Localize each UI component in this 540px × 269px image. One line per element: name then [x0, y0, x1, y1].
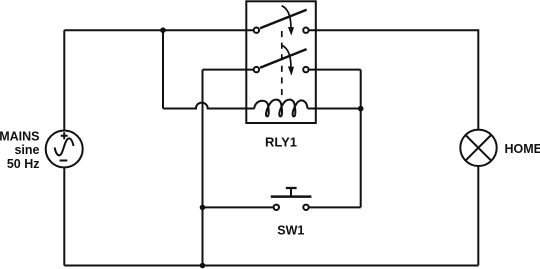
wire contact2 left rail: [203, 69, 254, 71]
pushbutton SW1 left terminal: [274, 205, 279, 210]
wire source bottom: [63, 169, 65, 266]
voltage source sine wave: [55, 138, 74, 155]
junction dot bottom rail: [200, 263, 206, 269]
svg-text:MAINS: MAINS: [0, 129, 40, 143]
relay contact 2 left terminal: [254, 67, 259, 72]
voltage source minus sign: [60, 160, 68, 162]
wire lamp bottom: [477, 166, 479, 265]
svg-text:50 Hz: 50 Hz: [7, 157, 40, 171]
wire x=360.7 vertical: [360, 70, 362, 208]
relay contact 1 blade: [260, 10, 307, 29]
svg-text:SW1: SW1: [277, 224, 304, 238]
relay coil L1: [254, 100, 307, 117]
wire coil left feed with hop over x=202: [163, 103, 255, 109]
label MAINS sine 50 Hz: [0, 129, 40, 171]
pushbutton SW1 plunger stem: [290, 188, 292, 196]
relay contact 1 left terminal: [254, 28, 259, 33]
relay contact 2 right terminal: [303, 67, 308, 72]
wire junction drop x=163: [162, 30, 164, 108]
wire source top to top rail: [63, 30, 65, 130]
wire x=202.5 vertical: [202, 70, 204, 266]
wire SW1 left rail: [203, 206, 274, 208]
wire coil right rail: [308, 108, 361, 110]
relay contact 1 actuate arrow arc: [282, 6, 291, 28]
junction dot SW1 left: [200, 205, 206, 211]
relay RLY1 box: [246, 1, 315, 123]
arrowhead contact 1: [288, 27, 294, 36]
relay linkage dashed line: [281, 31, 283, 95]
voltage source MAINS circle: [46, 131, 83, 168]
pushbutton SW1 right terminal: [303, 205, 308, 210]
svg-text:sine: sine: [14, 143, 39, 157]
svg-text:RLY1: RLY1: [265, 135, 297, 150]
voltage source plus sign: [61, 132, 68, 139]
relay contact 1 right terminal: [303, 28, 308, 33]
wire SW1 right rail: [309, 206, 361, 208]
pushbutton SW1 bar: [271, 195, 312, 198]
wire contact2 right rail: [309, 69, 361, 71]
wire top rail right segment to lamp: [309, 30, 478, 129]
relay contact 2 actuate arrow arc: [282, 45, 291, 67]
wire top rail left segment: [64, 29, 253, 31]
wire bottom rail: [64, 265, 478, 267]
junction dot top rail: [160, 27, 166, 33]
lamp X cross: [466, 135, 492, 161]
arrowhead contact 2: [288, 66, 294, 75]
junction dot coil right: [358, 106, 364, 112]
pushbutton SW1 plunger cap: [286, 187, 297, 189]
lamp HOME circle: [460, 130, 496, 166]
svg-text:HOME: HOME: [505, 142, 540, 156]
relay contact 2 blade: [260, 49, 307, 68]
